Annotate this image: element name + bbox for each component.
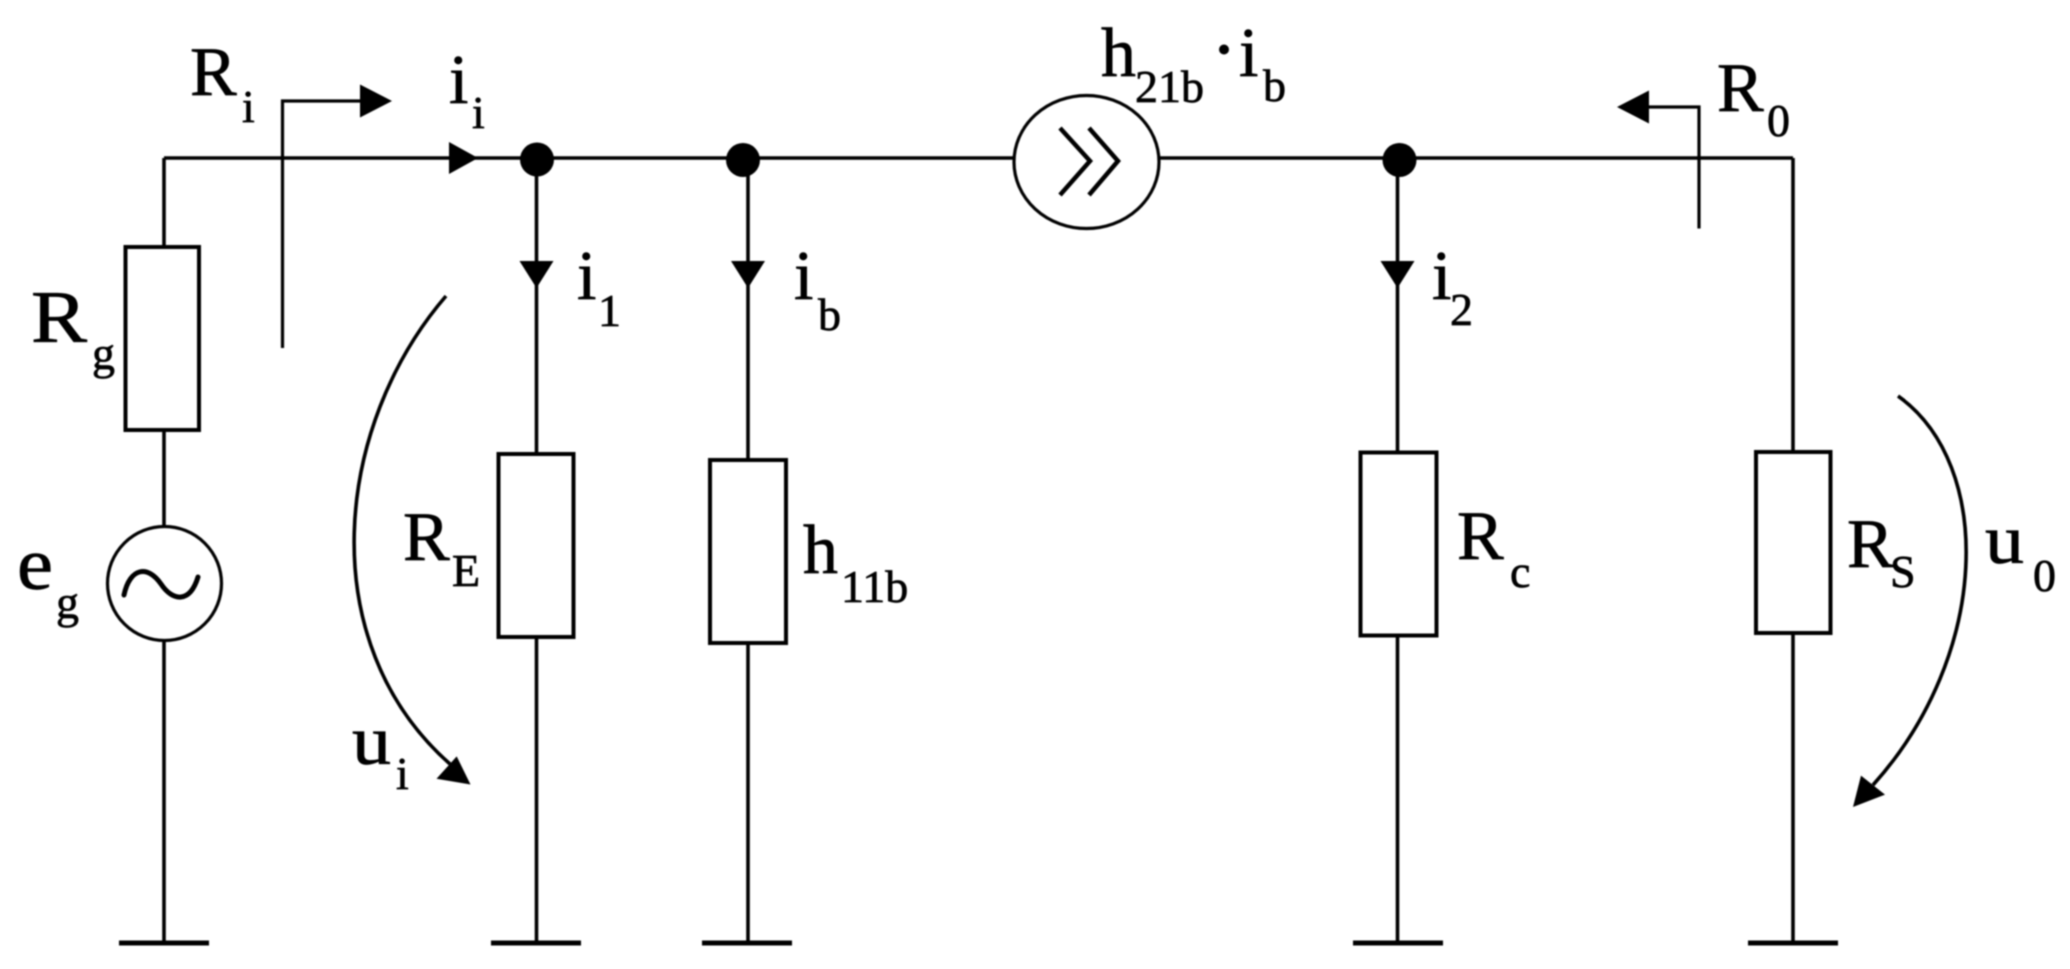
sine wave inside eg xyxy=(124,572,198,598)
svg-text:i: i xyxy=(794,238,813,315)
svg-text:u: u xyxy=(352,703,391,780)
svg-text:R: R xyxy=(1457,498,1504,575)
multiplication dot xyxy=(1219,45,1229,55)
wire eg to ground xyxy=(162,640,166,941)
u0 voltage arc xyxy=(1873,396,1966,785)
svg-text:i: i xyxy=(472,87,485,138)
wire RS to ground xyxy=(1791,633,1795,941)
wire node3 down to Rc xyxy=(1396,160,1400,453)
R0 measurement marker xyxy=(1647,107,1699,229)
ui arrowhead xyxy=(437,756,471,784)
wire top right segment xyxy=(1159,156,1793,160)
wire RE to ground xyxy=(535,637,539,941)
svg-text:2: 2 xyxy=(1450,284,1473,335)
wire right corner down to RS xyxy=(1791,158,1795,452)
resistor h11b xyxy=(710,460,786,643)
ground under RS xyxy=(1748,941,1838,946)
wire left corner down to Rg xyxy=(162,158,166,247)
ground under Rc xyxy=(1353,941,1443,946)
wire node1 down to RE xyxy=(535,159,539,454)
svg-text:i: i xyxy=(577,238,596,315)
resistor RE xyxy=(499,454,574,637)
resistor Rc xyxy=(1361,453,1437,636)
svg-text:b: b xyxy=(818,289,841,340)
wire h11b to ground xyxy=(746,643,750,941)
wire Rc to ground xyxy=(1396,636,1400,942)
Ri measurement marker xyxy=(283,101,363,348)
current i1 arrowhead xyxy=(520,261,554,288)
ground under h11b xyxy=(702,941,792,946)
current i2 arrowhead xyxy=(1381,261,1415,288)
wire top left segment xyxy=(164,156,1014,160)
chevron 2 of current source xyxy=(1089,128,1118,195)
ground under RE xyxy=(491,941,581,946)
svg-text:i: i xyxy=(1432,238,1451,315)
svg-text:h: h xyxy=(1101,15,1136,92)
svg-text:11b: 11b xyxy=(841,561,908,612)
node A junction dot xyxy=(520,143,554,177)
wire Rg to eg source xyxy=(162,430,166,527)
Ri arrowhead xyxy=(360,85,392,118)
svg-text:g: g xyxy=(92,328,115,379)
current ib arrowhead xyxy=(731,261,765,288)
R0 arrowhead xyxy=(1617,91,1649,124)
wire node2 down to h11b xyxy=(746,160,750,460)
resistor RS xyxy=(1756,452,1831,633)
svg-text:c: c xyxy=(1510,546,1530,597)
resistor Rg xyxy=(126,247,200,430)
current ii arrowhead on wire xyxy=(449,142,478,174)
chevron 1 of current source xyxy=(1060,128,1090,195)
svg-text:R: R xyxy=(190,34,237,111)
svg-text:i: i xyxy=(1239,15,1258,92)
ground under eg xyxy=(119,941,209,946)
svg-text:E: E xyxy=(452,545,480,596)
svg-text:R: R xyxy=(403,499,450,576)
svg-text:g: g xyxy=(56,577,79,628)
svg-text:b: b xyxy=(1263,60,1286,111)
svg-text:1: 1 xyxy=(598,285,621,336)
svg-text:i: i xyxy=(449,42,468,119)
node C junction dot xyxy=(1383,143,1417,177)
svg-text:e: e xyxy=(17,524,53,606)
svg-text:R: R xyxy=(1847,506,1894,583)
svg-text:h: h xyxy=(803,512,838,589)
svg-text:21b: 21b xyxy=(1135,61,1204,112)
u0 arrowhead xyxy=(1853,776,1885,807)
svg-text:S: S xyxy=(1890,546,1916,597)
svg-text:i: i xyxy=(396,748,409,799)
svg-text:u: u xyxy=(1985,502,2024,579)
source eg circle xyxy=(108,527,222,641)
svg-text:R: R xyxy=(31,277,88,359)
ui voltage arc xyxy=(354,296,450,764)
svg-text:i: i xyxy=(242,81,255,132)
controlled current source h21b circle xyxy=(1014,96,1159,229)
svg-text:R: R xyxy=(1717,50,1764,127)
svg-text:0: 0 xyxy=(2033,550,2056,601)
node B junction dot xyxy=(726,143,760,177)
svg-text:0: 0 xyxy=(1767,95,1790,146)
